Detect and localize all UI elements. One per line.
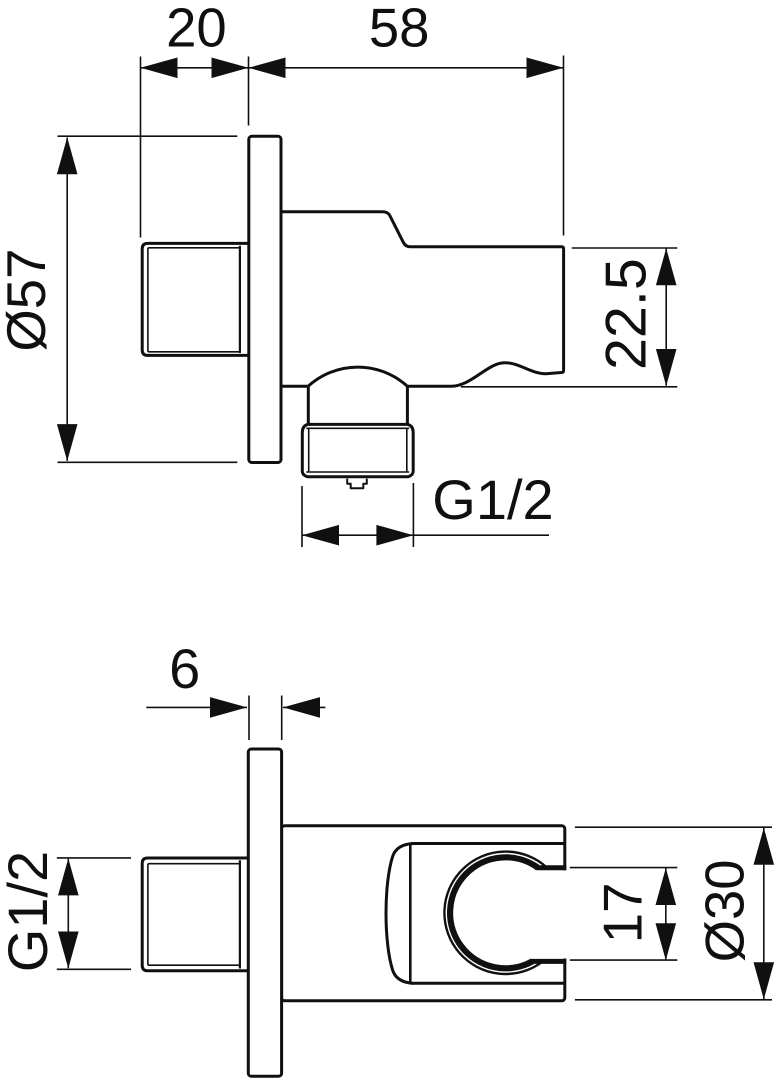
G1/2 bottom extension line bottom (57, 968, 131, 970)
dia57 dimension line (66, 138, 68, 461)
spigot2 thread minor line top (148, 863, 240, 865)
dim 6 line right (283, 706, 325, 708)
dim 17 extension line top (570, 867, 678, 869)
dim 17 arrow up (656, 868, 677, 905)
dim 6 extension line right (281, 696, 283, 741)
dia57 extension line bottom (58, 461, 238, 463)
svg-text:20: 20 (166, 0, 227, 59)
dim line 20/58 (141, 67, 564, 69)
spigot2 thread minor line bottom (148, 964, 240, 966)
holder face edge line (409, 844, 412, 983)
holder top line (411, 842, 565, 845)
dim 17 arrow down (656, 923, 677, 960)
nut thread minor line left (308, 428, 310, 472)
svg-text:17: 17 (593, 883, 654, 944)
body rect bottom view (282, 826, 565, 1001)
extension line at x=248.5 (248, 57, 250, 126)
extension line at x=140.5 (140, 57, 142, 238)
svg-text:Ø57: Ø57 (0, 249, 57, 352)
svg-text:58: 58 (369, 0, 430, 59)
G1/2 bottom arrow down (58, 932, 79, 969)
22.5 arrow up (656, 248, 677, 285)
spigot2 chamfer line (147, 864, 149, 966)
nut chamfer line top (306, 427, 409, 429)
arrow 58 left (249, 58, 286, 79)
dia30 dim line (763, 828, 765, 1000)
cradle lip bottom (531, 959, 566, 964)
arrow 20 right (212, 58, 249, 79)
G1/2 extension line right (412, 483, 414, 547)
G1/2 bottom extension line top (57, 857, 131, 859)
dia57 arrow up (57, 137, 78, 174)
cradle lip top (537, 865, 567, 870)
flange side view (249, 136, 281, 462)
dim 6 arrow left (pointing right) (210, 697, 247, 718)
svg-text:6: 6 (169, 637, 200, 700)
G1/2 extension line left (301, 486, 303, 547)
nut thread minor line right (406, 428, 408, 472)
arrow 58 right (527, 58, 564, 79)
svg-text:G1/2: G1/2 (0, 851, 59, 972)
G1/2 top view dimension+leader line (302, 534, 549, 536)
svg-text:22.5: 22.5 (595, 258, 659, 370)
dim 17 extension line bottom (570, 959, 678, 961)
nut chamfer line bottom (306, 471, 409, 473)
cradle inner ring arc (450, 857, 538, 968)
holder left bulge (386, 844, 413, 984)
22.5 arrow down (656, 349, 677, 386)
22.5 extension line bottom (461, 386, 677, 388)
outlet neck line left (307, 386, 310, 424)
22.5 dimension line (665, 249, 667, 386)
extension line at x=563.5 (563, 56, 565, 236)
dim 17 line (665, 868, 667, 960)
outlet nut outline (302, 424, 413, 476)
dia30 arrow up (754, 828, 775, 865)
spigot top view outline (142, 243, 248, 355)
nut bottom tab (347, 479, 367, 489)
dim 6 arrow right (pointing left) (283, 697, 320, 718)
22.5 extension line top (572, 247, 678, 249)
G1/2 bottom arrow up (58, 858, 79, 895)
cradle outer arc (444, 852, 547, 974)
dim 6 line left (146, 706, 247, 708)
G1/2 arrow right (376, 525, 413, 546)
spigot thread minor line bottom (148, 351, 240, 353)
dia57 extension line top (58, 135, 238, 137)
spigot chamfer line (147, 248, 149, 352)
spigot bottom view outline (142, 858, 248, 971)
spigot thread end line (239, 246, 241, 353)
spigot thread minor line top (148, 247, 240, 249)
body edge opening erase (562, 870, 568, 958)
svg-text:G1/2: G1/2 (432, 468, 553, 531)
wall plate bottom view (248, 749, 281, 1076)
dia30 extension line bottom (575, 999, 772, 1001)
G1/2 arrow left (302, 525, 339, 546)
dia57 arrow down (57, 424, 78, 461)
G1/2 bottom dim line (67, 859, 69, 969)
svg-text:Ø30: Ø30 (694, 859, 755, 962)
spigot2 thread end line (239, 860, 241, 968)
arrow 20 left (141, 58, 178, 79)
body outline top view (281, 212, 563, 386)
dia30 extension line top (575, 826, 772, 828)
outlet neck line right (406, 386, 409, 424)
holder bottom line (411, 982, 565, 985)
dim 6 extension line left (248, 696, 250, 741)
dia30 arrow down (754, 962, 775, 999)
